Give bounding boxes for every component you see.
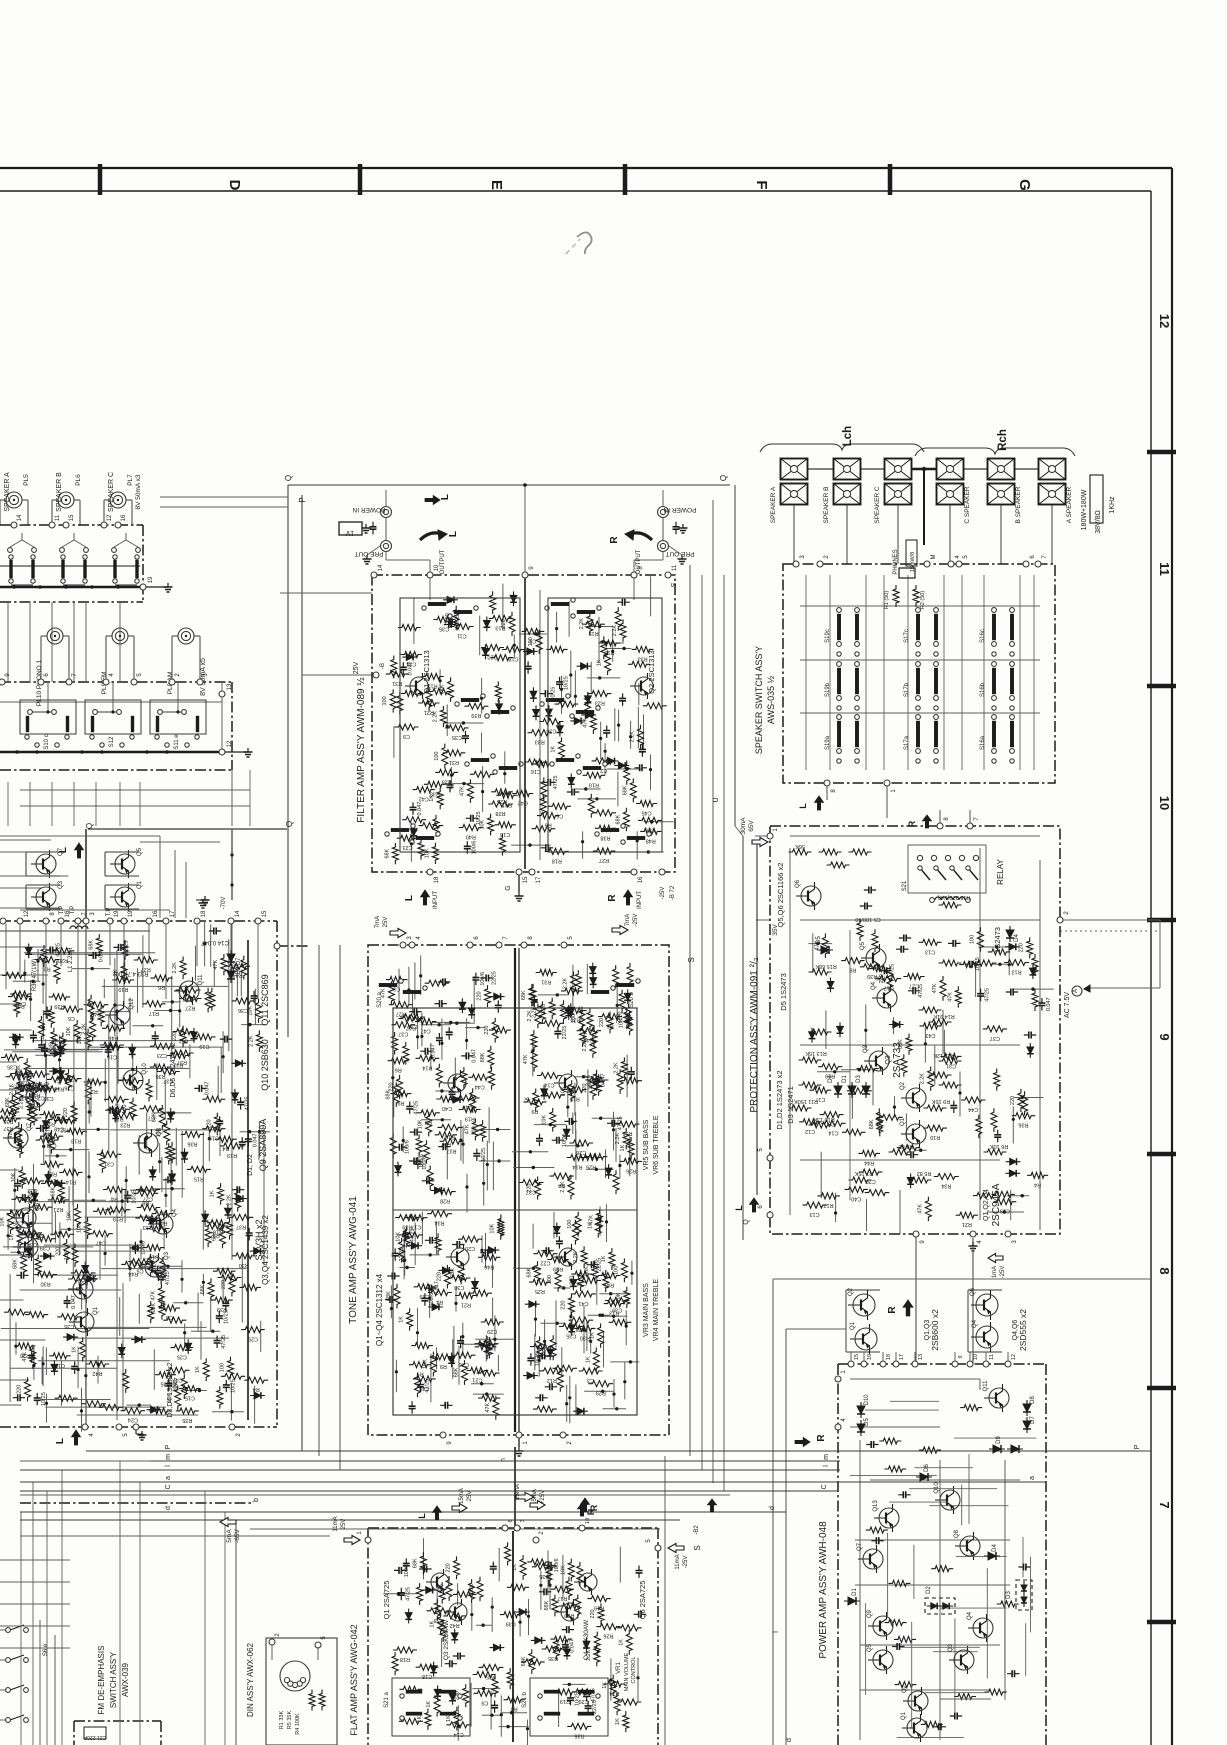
svg-text:R27: R27: [599, 857, 609, 863]
svg-text:56K: 56K: [795, 843, 805, 849]
svg-text:18: 18: [434, 876, 440, 883]
svg-text:C26: C26: [64, 1085, 74, 1091]
svg-text:C44: C44: [968, 1106, 978, 1112]
svg-text:1K: 1K: [426, 1701, 432, 1708]
svg-text:-B: -B: [380, 663, 386, 669]
svg-text:C21: C21: [472, 1377, 482, 1383]
svg-text:C39: C39: [27, 1241, 37, 1247]
svg-text:Q2: Q2: [902, 1684, 908, 1693]
svg-text:C SPEAKER: C SPEAKER: [964, 486, 971, 524]
svg-text:VR6 SUB TREBLE: VR6 SUB TREBLE: [653, 1115, 660, 1174]
svg-text:R37: R37: [12, 1083, 22, 1089]
svg-text:14: 14: [235, 910, 241, 917]
svg-text:47/25: 47/25: [617, 1116, 623, 1130]
svg-text:Q5: Q5: [867, 1643, 873, 1652]
svg-text:C21 220P: C21 220P: [83, 1734, 106, 1740]
svg-text:C16: C16: [645, 826, 655, 832]
svg-text:10: 10: [973, 1354, 979, 1360]
svg-text:Q1: Q1: [850, 1321, 856, 1330]
svg-text:R41: R41: [157, 1220, 167, 1226]
svg-text:R4: R4: [222, 1145, 229, 1151]
svg-text:VR4 MAIN TREBLE: VR4 MAIN TREBLE: [653, 1279, 660, 1341]
svg-text:C3: C3: [76, 1285, 83, 1291]
svg-text:R28: R28: [495, 810, 505, 816]
svg-text:Lch: Lch: [842, 426, 854, 446]
svg-text:100/6: 100/6: [405, 1140, 411, 1154]
svg-text:R19: R19: [825, 1073, 835, 1079]
svg-text:R35: R35: [548, 1655, 558, 1661]
svg-text:9: 9: [958, 1355, 964, 1358]
svg-text:C5 100/50: C5 100/50: [855, 916, 880, 922]
svg-text:100: 100: [613, 1266, 619, 1275]
svg-text:47K: 47K: [582, 718, 588, 728]
svg-text:b: b: [253, 1498, 260, 1502]
svg-text:10K: 10K: [616, 1292, 622, 1302]
svg-text:Q6: Q6: [795, 879, 801, 888]
svg-text:16: 16: [121, 514, 127, 521]
svg-text:OUTPUT: OUTPUT: [440, 549, 446, 574]
svg-text:R35: R35: [182, 1417, 192, 1423]
svg-text:17: 17: [536, 876, 542, 883]
svg-text:D5: D5: [864, 1418, 870, 1426]
svg-text:C20: C20: [465, 1245, 475, 1251]
svg-text:68K: 68K: [50, 1186, 56, 1196]
svg-text:C16: C16: [107, 1053, 117, 1059]
svg-text:R8: R8: [849, 967, 856, 973]
svg-text:1K: 1K: [602, 1682, 608, 1689]
svg-text:B SPEAKER: B SPEAKER: [1015, 486, 1022, 523]
svg-text:R44: R44: [864, 1159, 874, 1165]
svg-text:R23: R23: [183, 996, 193, 1002]
svg-text:19: 19: [148, 576, 154, 583]
svg-text:S6 e: S6 e: [43, 1643, 49, 1656]
svg-text:R37: R37: [236, 1223, 246, 1229]
svg-text:R25: R25: [497, 798, 507, 804]
svg-text:AC 7.5V: AC 7.5V: [1064, 992, 1071, 1018]
svg-text:R: R: [609, 536, 620, 544]
svg-text:2.2K: 2.2K: [920, 1073, 926, 1085]
svg-text:220: 220: [1019, 943, 1025, 952]
svg-text:R19: R19: [113, 1216, 123, 1222]
svg-text:68K: 68K: [544, 1600, 550, 1610]
svg-text:C15: C15: [462, 1104, 472, 1110]
svg-text:220: 220: [221, 1280, 227, 1289]
svg-text:C13: C13: [47, 1142, 57, 1148]
svg-text:19: 19: [114, 910, 120, 917]
svg-text:2.2K: 2.2K: [560, 1181, 566, 1193]
svg-text:1K: 1K: [429, 795, 435, 802]
svg-text:d: d: [165, 1506, 172, 1510]
svg-text:A: A: [1073, 989, 1079, 993]
svg-text:POWER AMP ASS'Y AWH-048: POWER AMP ASS'Y AWH-048: [818, 1521, 829, 1659]
svg-text:C13: C13: [143, 1224, 153, 1230]
svg-text:C12: C12: [805, 1128, 815, 1134]
svg-text:Q3: Q3: [164, 1251, 170, 1260]
svg-text:5mA: 5mA: [226, 1529, 233, 1543]
svg-text:68K: 68K: [469, 1584, 475, 1594]
svg-text:47K: 47K: [485, 1402, 491, 1412]
svg-text:100: 100: [382, 696, 388, 705]
svg-text:S11 e: S11 e: [174, 734, 180, 750]
svg-text:1K: 1K: [618, 1639, 624, 1646]
svg-text:68K: 68K: [527, 1267, 533, 1277]
svg-text:1K: 1K: [195, 1366, 201, 1373]
svg-text:Q4: Q4: [967, 1611, 973, 1620]
svg-text:Q1: Q1: [901, 1711, 907, 1720]
svg-text:D4: D4: [1014, 934, 1020, 942]
svg-text:C43: C43: [925, 1032, 935, 1038]
svg-text:PRE OUT: PRE OUT: [355, 550, 384, 557]
svg-text:R21: R21: [461, 1302, 471, 1308]
svg-text:R21: R21: [962, 1221, 972, 1227]
svg-text:10/25: 10/25: [535, 1353, 541, 1367]
svg-text:10K: 10K: [396, 1232, 402, 1242]
svg-text:Q1: Q1: [900, 1117, 906, 1126]
svg-text:D9: D9: [996, 1436, 1002, 1444]
svg-text:R40: R40: [466, 834, 476, 840]
svg-text:2SD555 x2: 2SD555 x2: [1018, 1309, 1028, 1351]
svg-text:C17: C17: [884, 985, 894, 991]
svg-text:R30: R30: [580, 1334, 590, 1340]
svg-text:10: 10: [1157, 796, 1172, 810]
svg-text:C30: C30: [454, 1284, 464, 1290]
svg-text:10/25: 10/25: [481, 1148, 487, 1162]
svg-text:C5: C5: [137, 1268, 144, 1274]
svg-text:R33 4.7(100): R33 4.7(100): [113, 970, 148, 976]
svg-text:19: 19: [128, 910, 134, 917]
svg-text:10/25: 10/25: [223, 1310, 229, 1324]
svg-text:R4: R4: [253, 1386, 260, 1392]
svg-text:C14: C14: [828, 1129, 838, 1135]
svg-text:R36: R36: [1018, 1122, 1028, 1128]
svg-text:C: C: [821, 1484, 828, 1489]
svg-text:S10 c: S10 c: [44, 734, 50, 749]
svg-text:Q1: Q1: [93, 1306, 99, 1315]
svg-text:220: 220: [436, 1272, 442, 1281]
svg-text:25V: 25V: [341, 1519, 347, 1530]
svg-text:Q3: Q3: [948, 1643, 954, 1652]
svg-text:R33: R33: [875, 975, 885, 981]
svg-text:R6: R6: [395, 1067, 402, 1073]
svg-text:S16c: S16c: [980, 629, 986, 643]
svg-text:C37: C37: [526, 1189, 536, 1195]
svg-text:47/25: 47/25: [890, 964, 896, 978]
svg-text:C37: C37: [398, 1031, 408, 1037]
svg-text:7: 7: [1157, 1501, 1172, 1508]
svg-text:R26: R26: [20, 1352, 30, 1358]
svg-text:-25V: -25V: [660, 887, 666, 900]
svg-text:12: 12: [24, 910, 30, 917]
svg-text:Q3: Q3: [58, 880, 64, 889]
svg-text:R39: R39: [553, 1266, 563, 1272]
svg-text:68K: 68K: [521, 990, 527, 1000]
svg-text:68K: 68K: [200, 1284, 206, 1294]
svg-text:R42: R42: [92, 1370, 102, 1376]
svg-text:11mA: 11mA: [333, 1516, 339, 1531]
svg-text:C20: C20: [487, 654, 497, 660]
svg-text:R27: R27: [396, 1011, 406, 1017]
svg-text:POWER IN: POWER IN: [663, 506, 696, 513]
svg-text:10K: 10K: [0, 1216, 6, 1226]
svg-text:C32: C32: [27, 1187, 37, 1193]
svg-text:L: L: [417, 1513, 427, 1519]
svg-text:R28: R28: [442, 778, 452, 784]
svg-text:Q11: Q11: [198, 974, 204, 986]
svg-text:R: R: [816, 1434, 827, 1442]
svg-text:Q7: Q7: [857, 1542, 863, 1551]
svg-text:68K: 68K: [412, 1558, 418, 1568]
svg-text:S19c: S19c: [825, 629, 831, 643]
svg-text:220: 220: [172, 1032, 178, 1041]
svg-text:Q6: Q6: [970, 1287, 976, 1296]
svg-text:S: S: [693, 1545, 702, 1550]
svg-text:R13: R13: [54, 1085, 64, 1091]
svg-text:R2: R2: [91, 1088, 98, 1094]
svg-text:0.047: 0.047: [417, 802, 423, 816]
svg-text:S: S: [671, 582, 678, 587]
svg-text:9: 9: [1157, 1033, 1172, 1040]
svg-text:R5: R5: [213, 1232, 220, 1238]
svg-text:C9: C9: [481, 1699, 488, 1705]
svg-text:C25: C25: [13, 1220, 23, 1226]
svg-text:R46: R46: [484, 1263, 494, 1269]
svg-text:R31: R31: [392, 680, 402, 686]
svg-text:15mA: 15mA: [459, 1488, 465, 1504]
svg-text:1K: 1K: [210, 1190, 216, 1197]
svg-text:0.047: 0.047: [600, 1073, 606, 1087]
svg-text:22/25: 22/25: [399, 1248, 405, 1262]
svg-text:m: m: [823, 1454, 830, 1460]
svg-text:68K: 68K: [898, 1039, 904, 1049]
svg-text:1K: 1K: [446, 1715, 452, 1722]
svg-text:R5: R5: [411, 826, 418, 832]
svg-text:E: E: [488, 180, 505, 190]
svg-text:Q9: Q9: [45, 1081, 51, 1090]
svg-text:TONE AMP ASS'Y AWG-041: TONE AMP ASS'Y AWG-041: [348, 1196, 359, 1324]
svg-text:R3: R3: [44, 966, 51, 972]
svg-text:8V 50mA x3: 8V 50mA x3: [135, 474, 142, 509]
svg-text:100: 100: [547, 1275, 553, 1284]
svg-text:Q4: Q4: [871, 981, 877, 990]
svg-text:10K: 10K: [11, 1172, 17, 1182]
svg-text:10/25: 10/25: [564, 676, 570, 690]
svg-text:S17c: S17c: [904, 629, 910, 643]
svg-text:S17a: S17a: [904, 735, 910, 750]
svg-text:47/25: 47/25: [553, 776, 559, 790]
svg-text:7mA: 7mA: [375, 916, 381, 928]
svg-text:C19: C19: [209, 1135, 219, 1141]
svg-text:R4: R4: [1034, 1181, 1041, 1187]
svg-text:VR5 SUB BASS: VR5 SUB BASS: [643, 1119, 650, 1170]
svg-text:D3: D3: [1006, 1591, 1012, 1599]
svg-text:68K: 68K: [384, 848, 390, 858]
svg-text:R26: R26: [603, 1633, 613, 1639]
svg-text:d: d: [786, 1738, 793, 1742]
svg-text:C35: C35: [64, 1323, 74, 1329]
svg-text:Q12: Q12: [129, 998, 135, 1010]
svg-text:R19: R19: [594, 1605, 604, 1611]
svg-text:C44: C44: [475, 1083, 485, 1089]
svg-text:C31: C31: [104, 1160, 114, 1166]
svg-text:R38: R38: [434, 1617, 444, 1623]
svg-text:PHONES: PHONES: [893, 549, 899, 574]
svg-text:R29: R29: [571, 1017, 581, 1023]
svg-text:Q: Q: [743, 1219, 750, 1225]
svg-text:R41: R41: [15, 1003, 25, 1009]
svg-text:R11 150K: R11 150K: [794, 1098, 818, 1104]
svg-text:12: 12: [227, 740, 233, 747]
svg-text:100/6: 100/6: [422, 1156, 428, 1170]
svg-text:100/6: 100/6: [49, 1043, 55, 1057]
svg-text:R48: R48: [646, 837, 656, 843]
svg-text:220: 220: [1010, 1096, 1016, 1105]
svg-text:15: 15: [69, 514, 75, 521]
svg-text:1K: 1K: [620, 1144, 626, 1151]
svg-text:10K: 10K: [490, 1223, 496, 1233]
svg-text:CONTROL: CONTROL: [631, 1657, 637, 1684]
svg-text:-25V: -25V: [683, 1556, 689, 1569]
svg-text:PROTECTION ASS'Y AWM-091 ²/: PROTECTION ASS'Y AWM-091 ²/₂: [749, 957, 760, 1112]
svg-text:C35: C35: [7, 1063, 17, 1069]
svg-text:Q9 2SA899A: Q9 2SA899A: [258, 1119, 268, 1172]
svg-text:S21: S21: [902, 880, 908, 891]
svg-text:C41: C41: [578, 1300, 588, 1306]
svg-text:0.047: 0.047: [431, 1044, 437, 1058]
svg-text:18: 18: [201, 910, 207, 917]
svg-text:C2: C2: [600, 767, 607, 773]
svg-text:Q2: Q2: [92, 1273, 98, 1282]
svg-text:Q1,Q2,Q4: Q1,Q2,Q4: [983, 1189, 990, 1221]
svg-text:30mA: 30mA: [740, 817, 747, 835]
svg-text:R47: R47: [604, 1282, 614, 1288]
svg-text:D6,D5 1S2471 x2: D6,D5 1S2471 x2: [170, 1042, 177, 1097]
svg-text:R42: R42: [450, 1622, 460, 1628]
svg-text:Q10: Q10: [142, 1063, 148, 1075]
svg-text:2.2K: 2.2K: [579, 618, 585, 630]
svg-text:0.047: 0.047: [99, 949, 105, 963]
svg-text:d: d: [769, 1506, 776, 1510]
svg-text:R12 12K: R12 12K: [933, 1052, 955, 1058]
svg-text:C: C: [165, 1484, 172, 1489]
svg-text:2.2K: 2.2K: [227, 1194, 233, 1206]
svg-text:R17: R17: [557, 1595, 567, 1601]
svg-text:13: 13: [227, 683, 233, 690]
svg-text:R4: R4: [436, 1299, 443, 1305]
svg-text:R36: R36: [574, 1732, 584, 1738]
svg-text:-65V: -65V: [234, 1528, 241, 1542]
svg-text:S20 b: S20 b: [629, 992, 635, 1008]
svg-text:11: 11: [55, 514, 61, 521]
svg-text:C39: C39: [506, 1621, 516, 1627]
svg-text:R10: R10: [589, 781, 599, 787]
svg-text:R12: R12: [547, 1377, 557, 1383]
svg-text:C19: C19: [199, 1043, 209, 1049]
svg-text:-70V: -70V: [221, 897, 227, 910]
svg-text:100: 100: [434, 752, 440, 761]
svg-text:VR1: VR1: [616, 1662, 622, 1674]
svg-text:R30: R30: [239, 1262, 249, 1268]
svg-text:C6: C6: [556, 812, 563, 818]
svg-text:R10: R10: [930, 1134, 940, 1140]
svg-text:R32: R32: [60, 1127, 70, 1133]
svg-text:C39: C39: [419, 1293, 429, 1299]
svg-text:D: D: [226, 180, 243, 191]
svg-text:15: 15: [854, 1354, 860, 1360]
svg-text:11: 11: [1157, 562, 1172, 576]
svg-text:R46: R46: [108, 1034, 118, 1040]
svg-text:Q9: Q9: [867, 1609, 873, 1618]
svg-text:1K: 1K: [9, 1234, 15, 1241]
svg-text:FILTER AMP ASS'Y AWM-089 ½: FILTER AMP ASS'Y AWM-089 ½: [356, 677, 367, 823]
svg-text:15mW/8: 15mW/8: [910, 552, 916, 572]
svg-text:100: 100: [122, 1105, 128, 1114]
svg-text:C48: C48: [419, 1385, 429, 1391]
svg-text:Q: Q: [85, 823, 94, 829]
svg-text:2.2K: 2.2K: [612, 625, 618, 637]
svg-text:C39: C39: [612, 1307, 622, 1313]
svg-text:10K: 10K: [418, 1119, 424, 1129]
svg-text:220: 220: [561, 1301, 567, 1310]
svg-text:1K: 1K: [585, 1356, 591, 1363]
svg-text:R6 10K: R6 10K: [990, 1143, 1009, 1149]
svg-text:2.2K: 2.2K: [82, 1023, 88, 1035]
svg-text:47K: 47K: [459, 786, 465, 796]
svg-text:220: 220: [599, 1018, 605, 1027]
svg-text:68K: 68K: [869, 1119, 875, 1129]
svg-text:47/25: 47/25: [405, 1587, 411, 1601]
svg-text:C22: C22: [540, 1260, 550, 1266]
svg-text:C35: C35: [566, 1332, 576, 1338]
svg-text:10K: 10K: [422, 1359, 428, 1369]
svg-text:220: 220: [17, 1385, 23, 1394]
svg-text:R19: R19: [227, 1152, 237, 1158]
svg-text:1K: 1K: [615, 1718, 621, 1725]
svg-text:R20: R20: [564, 1612, 574, 1618]
svg-text:R23: R23: [595, 700, 605, 706]
svg-text:1K: 1K: [72, 1346, 78, 1353]
svg-text:220: 220: [63, 1108, 69, 1117]
svg-text:Q5,Q6 2SC1166 x2: Q5,Q6 2SC1166 x2: [776, 863, 785, 928]
svg-text:C13: C13: [925, 948, 935, 954]
svg-text:Q6 2SA725: Q6 2SA725: [638, 1581, 647, 1620]
svg-text:2.2K: 2.2K: [573, 1251, 579, 1263]
svg-text:C17: C17: [815, 1096, 825, 1102]
svg-text:220: 220: [501, 619, 507, 628]
svg-text:65V: 65V: [748, 820, 755, 832]
svg-text:47K: 47K: [583, 1031, 589, 1041]
svg-text:C33: C33: [577, 1280, 587, 1286]
svg-text:68K: 68K: [584, 1266, 590, 1276]
svg-text:R34: R34: [941, 1183, 951, 1189]
svg-text:C47: C47: [421, 1028, 431, 1034]
svg-text:D6: D6: [924, 1464, 930, 1472]
svg-text:10/25: 10/25: [975, 957, 981, 971]
svg-text:68K: 68K: [5, 1097, 11, 1107]
svg-text:35V: 35V: [772, 924, 779, 936]
svg-text:100/6: 100/6: [554, 1558, 560, 1572]
svg-text:C31: C31: [946, 1062, 956, 1068]
svg-text:C6: C6: [68, 1015, 75, 1021]
svg-text:47K: 47K: [8, 1129, 14, 1139]
svg-text:R25: R25: [535, 1288, 545, 1294]
svg-text:10K: 10K: [424, 848, 430, 858]
svg-text:SPEAKER B: SPEAKER B: [56, 472, 63, 512]
svg-text:R5 35K: R5 35K: [287, 1711, 293, 1730]
svg-text:22/25: 22/25: [124, 941, 130, 955]
svg-text:F: F: [753, 180, 770, 189]
svg-text:R13: R13: [428, 683, 438, 689]
svg-text:R17: R17: [824, 1202, 834, 1208]
